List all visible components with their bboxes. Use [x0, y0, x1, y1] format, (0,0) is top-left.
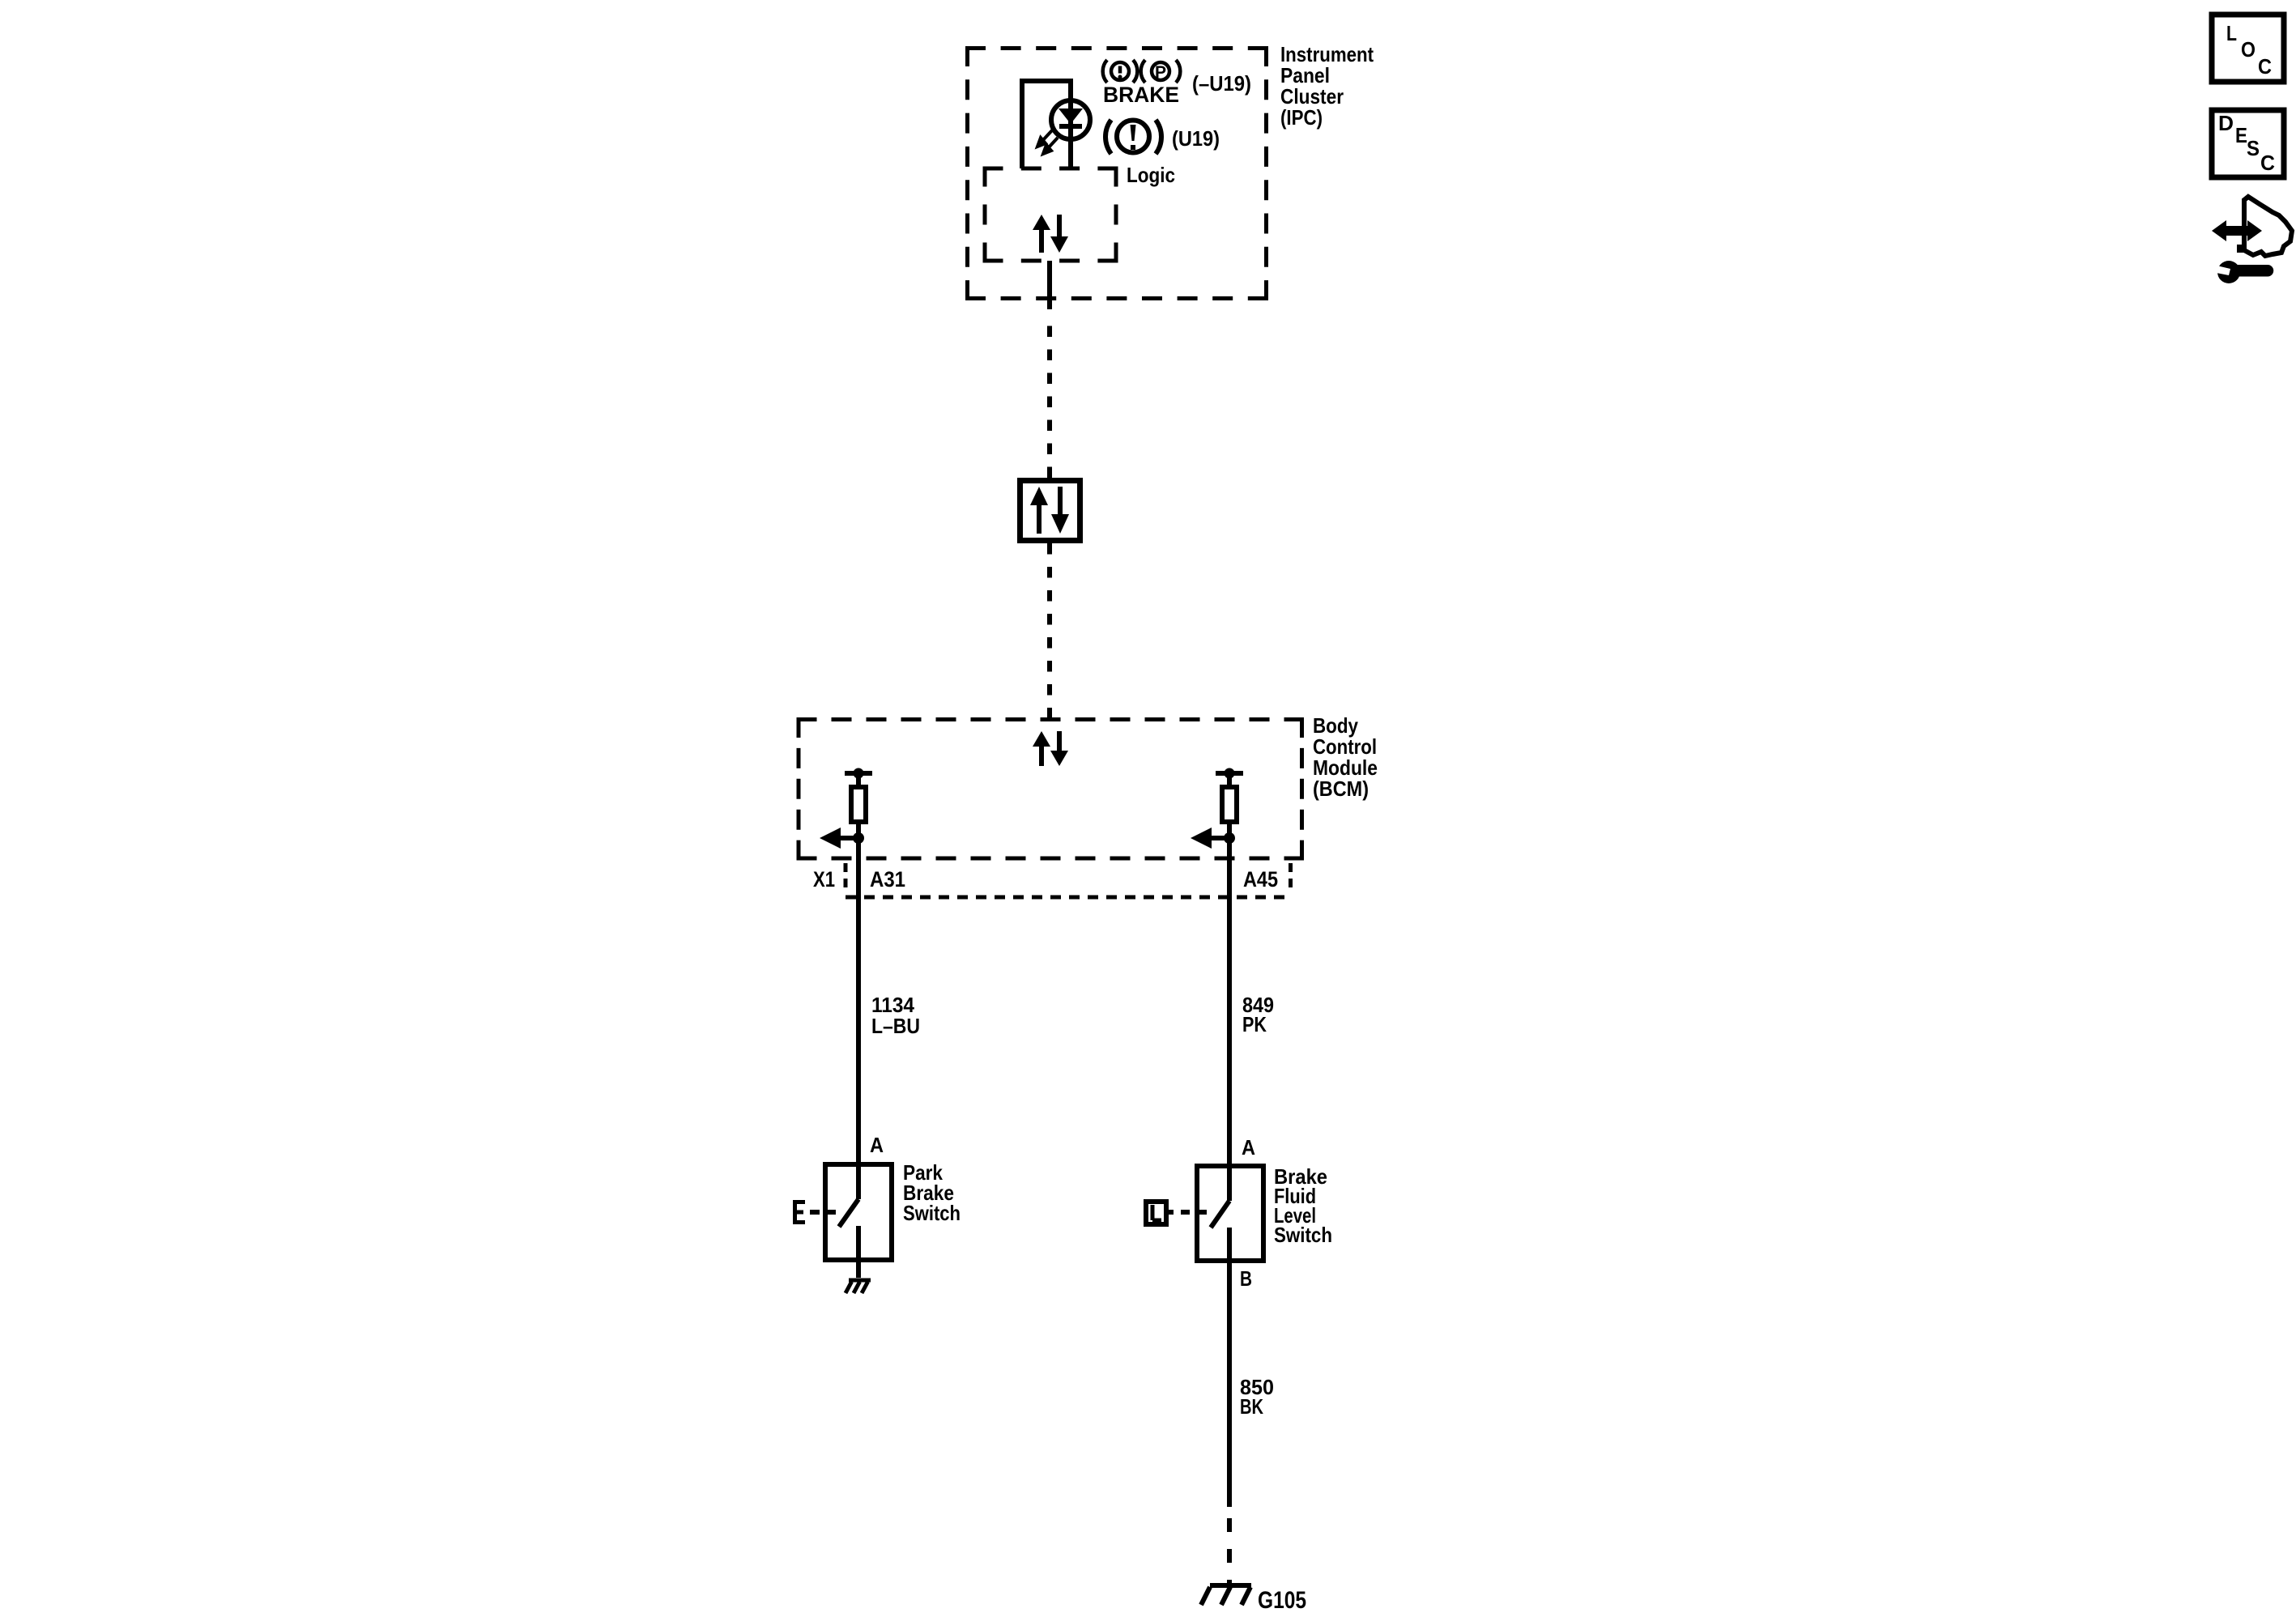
svg-text:(IPC): (IPC) — [1280, 105, 1323, 130]
svg-text:P: P — [1155, 63, 1166, 82]
svg-text:A31: A31 — [870, 867, 905, 891]
svg-text:(BCM): (BCM) — [1313, 777, 1369, 801]
svg-text:O: O — [2241, 37, 2256, 62]
svg-text:G105: G105 — [1258, 1587, 1306, 1614]
svg-text:PK: PK — [1242, 1012, 1267, 1036]
svg-text:(U19): (U19) — [1172, 126, 1220, 151]
svg-text:A: A — [870, 1133, 884, 1157]
svg-text:C: C — [2260, 151, 2275, 175]
svg-text:L–BU: L–BU — [871, 1014, 920, 1038]
svg-text:BK: BK — [1240, 1394, 1263, 1419]
svg-text:E: E — [2235, 123, 2247, 147]
svg-text:C: C — [2258, 54, 2272, 79]
svg-text:Switch: Switch — [1274, 1223, 1332, 1247]
svg-text:Switch: Switch — [903, 1201, 961, 1225]
svg-text:L: L — [2226, 21, 2237, 45]
svg-text:D: D — [2218, 111, 2234, 135]
svg-text:(–U19): (–U19) — [1192, 71, 1251, 96]
svg-text:BRAKE: BRAKE — [1103, 83, 1179, 107]
svg-text:X1: X1 — [813, 867, 835, 891]
svg-text:Logic: Logic — [1127, 163, 1175, 187]
svg-text:A: A — [1242, 1135, 1255, 1160]
svg-text:A45: A45 — [1243, 867, 1278, 891]
svg-text:B: B — [1240, 1266, 1252, 1291]
svg-text:S: S — [2247, 136, 2260, 160]
